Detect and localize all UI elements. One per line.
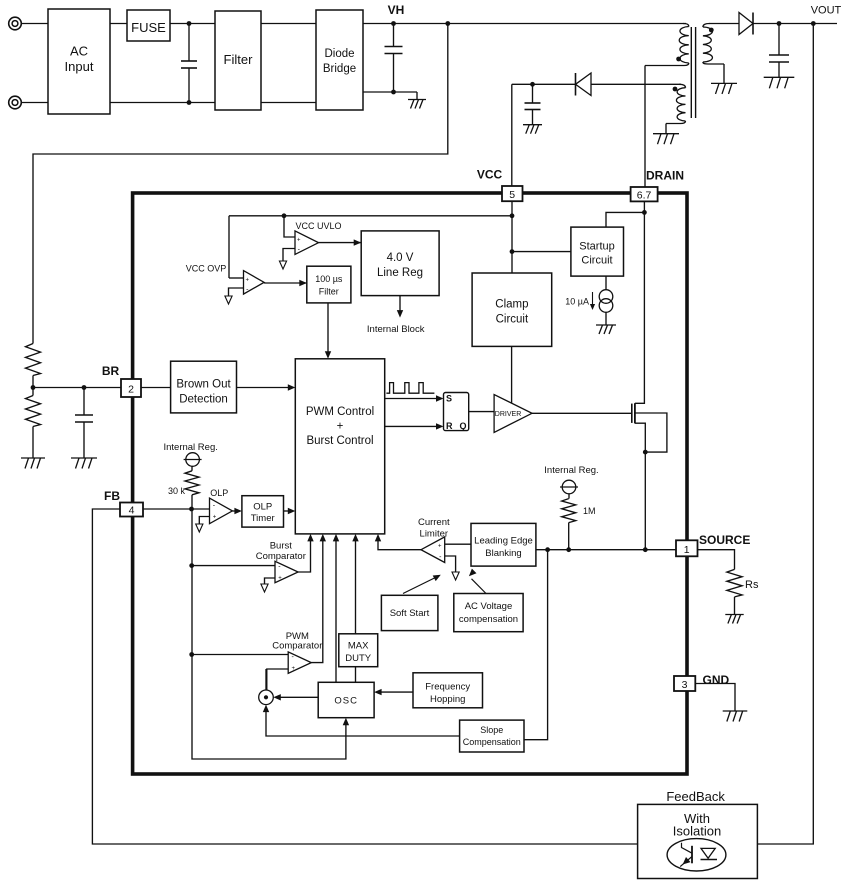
svg-text:Soft Start: Soft Start <box>390 608 430 619</box>
svg-text:Detection: Detection <box>179 394 228 406</box>
svg-text:Circuit: Circuit <box>496 314 529 326</box>
svg-text:Frequency: Frequency <box>425 682 470 693</box>
svg-text:DRIVER: DRIVER <box>495 411 521 418</box>
svg-text:BR: BR <box>102 364 120 378</box>
svg-text:GND: GND <box>703 673 730 687</box>
svg-text:FeedBack: FeedBack <box>666 789 725 804</box>
svg-text:Filter: Filter <box>224 52 254 67</box>
svg-text:VCC: VCC <box>477 168 503 182</box>
svg-text:Comparator: Comparator <box>256 551 306 562</box>
svg-text:Filter: Filter <box>319 287 339 297</box>
svg-text:VCC OVP: VCC OVP <box>186 264 227 274</box>
svg-text:Limiter: Limiter <box>420 529 449 540</box>
svg-text:3: 3 <box>682 679 688 691</box>
svg-text:FUSE: FUSE <box>131 20 166 35</box>
svg-text:Burst: Burst <box>270 541 293 552</box>
svg-text:OLP: OLP <box>210 488 228 498</box>
svg-text:MAX: MAX <box>348 641 369 652</box>
svg-text:4.0 V: 4.0 V <box>387 252 414 264</box>
svg-text:FB: FB <box>104 489 120 503</box>
svg-text:R: R <box>446 421 453 431</box>
svg-text:Q: Q <box>460 421 467 431</box>
svg-text:Diode: Diode <box>324 48 354 60</box>
svg-text:1: 1 <box>684 544 690 556</box>
svg-text:Circuit: Circuit <box>581 255 612 267</box>
svg-text:Timer: Timer <box>251 513 275 524</box>
svg-text:30 k: 30 k <box>168 486 186 496</box>
svg-text:compensation: compensation <box>459 614 518 625</box>
svg-text:OLP: OLP <box>253 502 272 513</box>
svg-text:PWM Control: PWM Control <box>306 406 374 418</box>
svg-text:Hopping: Hopping <box>430 694 465 705</box>
svg-text:Blanking: Blanking <box>485 548 521 559</box>
svg-text:DRAIN: DRAIN <box>646 169 684 183</box>
svg-text:+: + <box>278 576 282 582</box>
svg-text:4: 4 <box>129 505 135 517</box>
svg-text:OSC: OSC <box>334 696 358 707</box>
svg-text:Internal Reg.: Internal Reg. <box>544 465 598 476</box>
svg-text:VH: VH <box>388 3 405 17</box>
svg-text:100 µs: 100 µs <box>315 274 343 284</box>
svg-text:Current: Current <box>418 517 450 528</box>
svg-text:Internal Reg.: Internal Reg. <box>163 442 217 453</box>
svg-text:+: + <box>337 421 344 433</box>
svg-text:Isolation: Isolation <box>673 824 721 839</box>
svg-text:+: + <box>438 544 442 550</box>
svg-text:Input: Input <box>65 59 94 74</box>
svg-text:1M: 1M <box>583 506 596 516</box>
svg-text:SOURCE: SOURCE <box>699 533 750 547</box>
svg-text:+: + <box>246 277 250 283</box>
svg-text:2: 2 <box>128 384 134 396</box>
svg-text:Comparator: Comparator <box>272 641 322 652</box>
svg-text:Startup: Startup <box>579 241 614 253</box>
svg-text:Burst Control: Burst Control <box>306 435 373 447</box>
svg-text:Rs: Rs <box>745 579 759 591</box>
svg-text:VOUT: VOUT <box>811 5 842 17</box>
svg-text:10 µA: 10 µA <box>565 297 589 307</box>
svg-text:Line Reg: Line Reg <box>377 267 423 279</box>
svg-text:Slope: Slope <box>480 725 503 735</box>
svg-text:Internal Block: Internal Block <box>367 324 425 335</box>
svg-text:+: + <box>213 515 217 521</box>
svg-text:S: S <box>446 394 452 404</box>
svg-text:5: 5 <box>509 189 515 201</box>
svg-text:AC: AC <box>70 44 88 59</box>
svg-text:6.7: 6.7 <box>637 189 652 201</box>
svg-text:AC Voltage: AC Voltage <box>465 601 513 612</box>
svg-text:Clamp: Clamp <box>495 299 528 311</box>
svg-text:Compensation: Compensation <box>463 737 521 747</box>
svg-text:+: + <box>297 237 301 243</box>
svg-text:Brown Out: Brown Out <box>176 379 231 391</box>
svg-text:VCC UVLO: VCC UVLO <box>295 221 341 231</box>
svg-text:+: + <box>292 666 296 672</box>
svg-text:DUTY: DUTY <box>345 653 372 664</box>
svg-text:Leading Edge: Leading Edge <box>474 536 533 547</box>
svg-text:Bridge: Bridge <box>323 63 356 75</box>
